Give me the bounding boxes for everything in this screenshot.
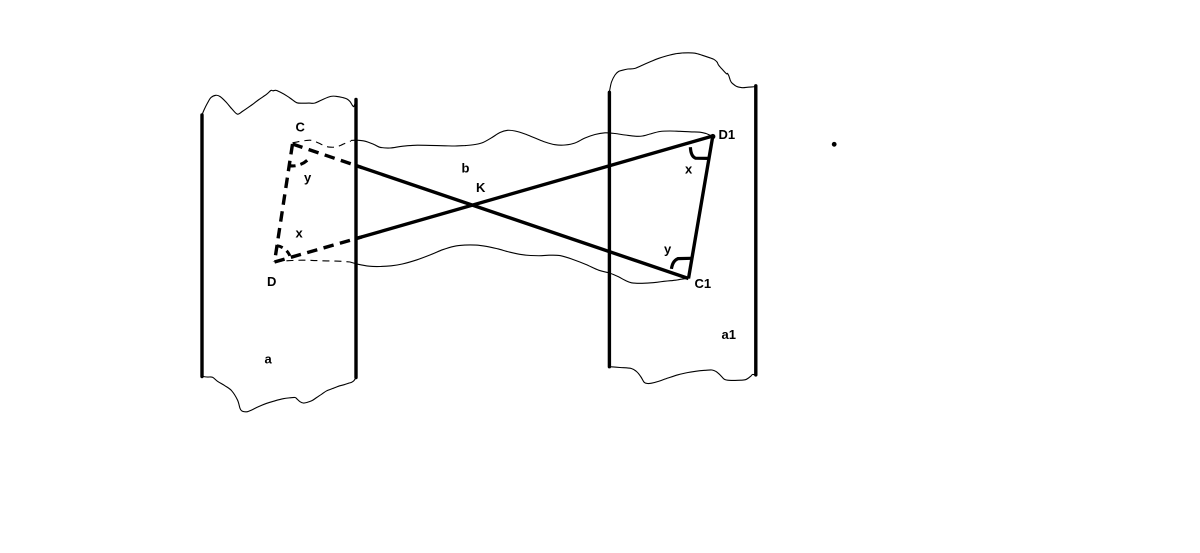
angle y mark at C1 (671, 258, 690, 269)
segment C C1 hidden part (293, 144, 363, 168)
strip a1 left edge (608, 92, 611, 366)
svg-text:D1: D1 (719, 127, 736, 142)
band b bottom edge hidden part (275, 260, 351, 262)
angle x mark at D1 (690, 147, 708, 158)
svg-text:K: K (476, 180, 486, 195)
svg-text:a: a (265, 352, 273, 367)
band b top edge (351, 130, 713, 148)
strip a1 torn bottom edge (609, 367, 755, 384)
strip a1 right edge (754, 86, 757, 375)
svg-text:x: x (685, 162, 693, 177)
segment C C1 (357, 166, 689, 279)
band b top edge hidden part (293, 140, 352, 147)
strip a torn bottom edge (202, 376, 356, 412)
segment D D1 (357, 136, 713, 238)
strip a1 torn top edge (609, 53, 755, 93)
angle x arc at D (277, 246, 290, 258)
strip a right edge (354, 100, 357, 378)
segment D1 C1 (689, 136, 713, 279)
strip a torn top edge (202, 90, 356, 115)
svg-text:y: y (304, 170, 312, 185)
svg-text:b: b (462, 161, 470, 176)
svg-text:C: C (296, 120, 306, 135)
point D1 vertex dot (710, 134, 715, 139)
angle y arc at C (289, 160, 307, 166)
stray ink dot (832, 142, 837, 147)
svg-text:C1: C1 (695, 276, 712, 291)
strip a left edge (200, 115, 203, 377)
segment D D1 hidden part (275, 237, 363, 262)
svg-text:y: y (664, 242, 672, 257)
segment CD (275, 144, 293, 262)
svg-text:D: D (267, 274, 276, 289)
band b bottom edge (350, 245, 689, 283)
svg-text:x: x (296, 226, 304, 241)
svg-text:a1: a1 (722, 327, 736, 342)
